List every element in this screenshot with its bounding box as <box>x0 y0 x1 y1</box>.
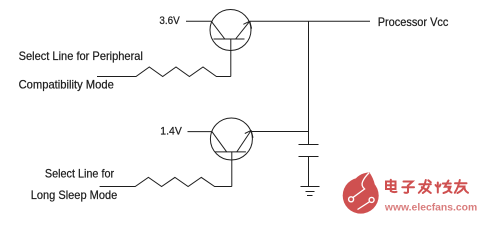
ground <box>301 187 320 196</box>
wire capacitor to ground <box>308 157 310 187</box>
wire Q1 collector to Processor Vcc <box>250 20 370 22</box>
svg-text:Compatibility Mode: Compatibility Mode <box>19 77 114 91</box>
watermark text fa <box>419 180 431 193</box>
svg-text:3.6V: 3.6V <box>159 15 180 27</box>
resistor R2 <box>100 177 232 186</box>
svg-text:Processor Vcc: Processor Vcc <box>378 15 449 29</box>
svg-text:Long Sleep Mode: Long Sleep Mode <box>31 188 118 202</box>
wire 1.4V lead <box>188 131 212 133</box>
wire 3.6V lead <box>186 20 211 22</box>
wire Q2 collector to rail <box>251 131 308 133</box>
svg-text:Select Line for: Select Line for <box>45 166 114 180</box>
wire Q2 base down <box>231 152 233 187</box>
watermark text you <box>455 180 468 193</box>
transistor Q1 <box>210 10 252 51</box>
capacitor C1 <box>299 145 319 157</box>
watermark text zi <box>402 182 414 193</box>
svg-text:1.4V: 1.4V <box>160 126 182 138</box>
svg-text:Select Line for Peripheral: Select Line for Peripheral <box>19 49 143 63</box>
transistor Q2 <box>210 118 253 160</box>
wire Q1 base down <box>230 39 232 77</box>
resistor R1 <box>97 67 231 77</box>
svg-text:www.elecfans.com: www.elecfans.com <box>384 203 477 214</box>
watermark text dian <box>386 180 397 192</box>
watermark logo <box>343 172 379 213</box>
watermark text shao <box>436 181 452 194</box>
wire Vcc rail vertical <box>308 21 310 144</box>
